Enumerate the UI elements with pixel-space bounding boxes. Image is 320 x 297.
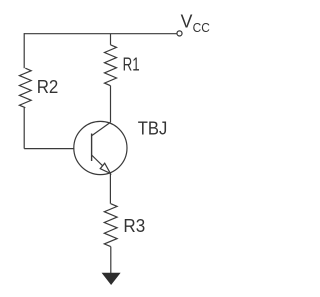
resistor R3 xyxy=(104,204,117,247)
transistor Q1 emitter arrowhead xyxy=(100,163,110,173)
transistor Q1 base bar xyxy=(91,134,93,162)
wire collector lead (R1 to transistor) xyxy=(110,86,112,123)
wire left branch lower (R2 to base corner) xyxy=(23,108,25,149)
transistor Q1 collector diagonal xyxy=(92,122,111,136)
node Vcc terminal xyxy=(177,31,182,36)
wire emitter lead (transistor to R3) xyxy=(109,173,111,203)
svg-text:TBJ: TBJ xyxy=(138,119,168,139)
svg-text:R2: R2 xyxy=(37,77,59,97)
wire R3 to ground xyxy=(110,247,112,274)
wire R1 branch top (rail to R1) xyxy=(110,34,112,45)
svg-text:CC: CC xyxy=(193,20,210,35)
resistor R2 xyxy=(19,68,31,108)
wire top rail xyxy=(24,33,177,35)
wire base lead xyxy=(24,148,74,150)
ground xyxy=(102,273,119,284)
svg-text:V: V xyxy=(181,12,193,32)
label Vcc xyxy=(181,12,210,36)
svg-text:R3: R3 xyxy=(123,216,145,236)
svg-text:R1: R1 xyxy=(123,54,140,74)
resistor R1 xyxy=(105,45,117,86)
transistor Q1 body circle xyxy=(74,121,127,174)
transistor Q1 emitter diagonal xyxy=(92,155,111,173)
wire left branch upper (top rail to R2) xyxy=(23,33,25,68)
